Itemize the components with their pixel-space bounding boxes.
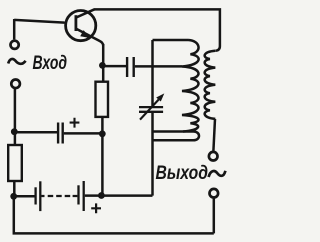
input terminal top bbox=[11, 41, 19, 49]
wire base: input top corner to transistor base bbox=[14, 20, 64, 23]
svg-text:Вход: Вход bbox=[33, 53, 68, 74]
battery G1 long plate bbox=[39, 181, 41, 211]
variable capacitor C3 plate top bbox=[139, 106, 163, 108]
inductor L1 winding bbox=[182, 40, 199, 132]
resistor R2 bbox=[96, 82, 109, 117]
battery wire left bbox=[14, 195, 35, 198]
battery G2 short plate bbox=[77, 185, 79, 204]
wire: R1 top lead bbox=[14, 132, 17, 145]
transistor collector bbox=[76, 9, 95, 17]
wire: R1 bottom lead bbox=[13, 181, 16, 196]
node C dot bbox=[10, 193, 17, 200]
transistor emitter bbox=[76, 29, 103, 46]
wire: R2 bottom lead bbox=[101, 117, 104, 195]
inductor L1 bottom loop bbox=[153, 132, 200, 141]
AC tilde input bbox=[8, 59, 25, 64]
capacitor C1 plate right bbox=[132, 57, 134, 77]
transistor Q1 circle bbox=[66, 11, 96, 41]
plus sign C2 bbox=[70, 118, 80, 128]
variable capacitor C3 plate bottom bbox=[139, 111, 163, 113]
battery dashed link bbox=[41, 195, 77, 197]
svg-text:Выход: Выход bbox=[156, 163, 209, 184]
variable capacitor arrowhead bbox=[156, 93, 164, 101]
tank vertical wire lower bbox=[151, 113, 154, 196]
inductor L1 top wire bbox=[153, 39, 189, 42]
input terminal bottom bbox=[11, 80, 20, 89]
capacitor C1 plate left bbox=[126, 57, 128, 77]
node E dot bbox=[98, 192, 105, 199]
wire: output bottom to bottom rail bbox=[213, 198, 216, 234]
battery wire right bbox=[85, 194, 153, 197]
battery G2 long plate bbox=[83, 181, 85, 211]
battery G1 short plate bbox=[34, 187, 36, 204]
output terminal top bbox=[209, 152, 218, 161]
transistor emitter arrow bbox=[80, 30, 90, 38]
transistor base bar bbox=[75, 15, 78, 31]
variable capacitor arrow shaft bbox=[140, 100, 159, 120]
wire: emitter column down to node D bbox=[102, 44, 105, 82]
plus sign battery bbox=[91, 203, 101, 213]
resistor R1 bbox=[8, 145, 22, 181]
wire: node C down and bottom rail bbox=[14, 196, 214, 233]
top rail wire bbox=[94, 9, 220, 50]
node D dot bbox=[99, 62, 106, 69]
node A dot bbox=[11, 128, 18, 135]
wire: node D to capacitor C1 bbox=[103, 65, 126, 68]
wire: C1 to coil tap bbox=[135, 65, 182, 68]
wire: node A to capacitor C2 bbox=[14, 131, 57, 134]
wire: L2 to output terminal bbox=[213, 119, 215, 151]
capacitor C2 plate right bbox=[62, 123, 64, 144]
wire bbox=[13, 19, 16, 39]
output terminal bottom bbox=[210, 189, 219, 198]
inductor L2 winding bbox=[205, 51, 216, 119]
AC tilde output bbox=[209, 171, 226, 177]
tank vertical wire upper bbox=[151, 40, 154, 106]
wire: C2 to node B bbox=[64, 132, 102, 135]
node B dot bbox=[99, 130, 106, 137]
wire: input bottom down to node A bbox=[14, 89, 17, 132]
capacitor C2 plate left bbox=[57, 123, 59, 144]
